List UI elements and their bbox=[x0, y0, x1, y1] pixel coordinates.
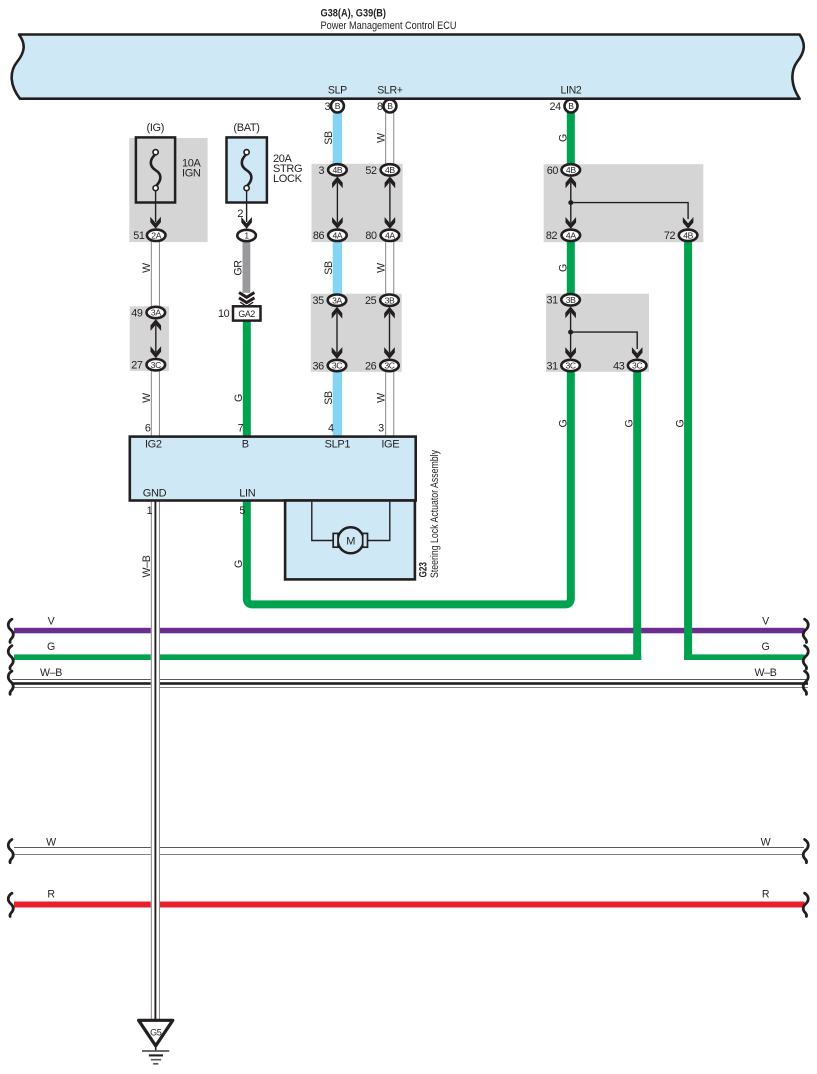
svg-text:24: 24 bbox=[549, 101, 561, 113]
svg-text:LIN2: LIN2 bbox=[561, 85, 582, 97]
svg-text:86: 86 bbox=[313, 230, 325, 242]
svg-text:W: W bbox=[376, 263, 388, 273]
svg-text:52: 52 bbox=[365, 165, 377, 177]
svg-text:26: 26 bbox=[365, 360, 377, 372]
svg-text:27: 27 bbox=[131, 360, 143, 372]
svg-text:G: G bbox=[233, 560, 245, 568]
svg-text:SB: SB bbox=[323, 261, 335, 275]
svg-text:3C: 3C bbox=[332, 361, 342, 371]
svg-text:GR: GR bbox=[233, 260, 245, 276]
svg-text:R: R bbox=[47, 889, 55, 901]
svg-text:Power Management Control ECU: Power Management Control ECU bbox=[321, 20, 457, 32]
svg-text:1: 1 bbox=[147, 505, 153, 517]
svg-text:LOCK: LOCK bbox=[273, 173, 303, 185]
svg-text:W: W bbox=[376, 133, 388, 143]
svg-text:51: 51 bbox=[133, 230, 145, 242]
svg-text:31: 31 bbox=[546, 295, 558, 307]
svg-text:4B: 4B bbox=[385, 165, 395, 175]
svg-text:B: B bbox=[387, 101, 393, 111]
svg-text:B: B bbox=[335, 101, 341, 111]
svg-text:G: G bbox=[762, 641, 770, 653]
svg-text:SLR+: SLR+ bbox=[377, 85, 403, 97]
svg-text:LIN: LIN bbox=[239, 487, 255, 499]
svg-text:5: 5 bbox=[239, 505, 245, 517]
svg-text:W: W bbox=[141, 393, 153, 403]
svg-text:1: 1 bbox=[244, 231, 249, 241]
svg-text:4: 4 bbox=[328, 423, 334, 435]
svg-text:3: 3 bbox=[319, 165, 325, 177]
svg-text:3B: 3B bbox=[385, 295, 395, 305]
svg-text:2A: 2A bbox=[151, 230, 161, 240]
svg-text:3C: 3C bbox=[384, 361, 394, 371]
svg-text:35: 35 bbox=[312, 295, 324, 307]
svg-text:W: W bbox=[46, 837, 56, 849]
svg-text:3A: 3A bbox=[151, 308, 161, 318]
svg-text:W: W bbox=[141, 263, 153, 273]
svg-text:GND: GND bbox=[143, 487, 167, 499]
svg-text:7: 7 bbox=[238, 423, 244, 435]
svg-text:60: 60 bbox=[547, 165, 559, 177]
svg-text:80: 80 bbox=[365, 230, 377, 242]
svg-text:IGN: IGN bbox=[182, 167, 201, 179]
svg-text:3C: 3C bbox=[565, 361, 575, 371]
svg-text:W–B: W–B bbox=[40, 667, 62, 679]
svg-text:6: 6 bbox=[145, 423, 151, 435]
svg-text:72: 72 bbox=[664, 230, 676, 242]
svg-text:Steering Lock Actuator Assembl: Steering Lock Actuator Assembly bbox=[429, 449, 441, 578]
svg-text:31: 31 bbox=[546, 360, 558, 372]
svg-text:4B: 4B bbox=[332, 165, 342, 175]
svg-text:3C: 3C bbox=[632, 361, 642, 371]
svg-text:G: G bbox=[623, 419, 635, 427]
svg-text:8: 8 bbox=[377, 101, 383, 113]
svg-text:G: G bbox=[47, 641, 55, 653]
svg-text:G: G bbox=[675, 419, 687, 427]
svg-text:4A: 4A bbox=[385, 230, 395, 240]
svg-text:R: R bbox=[762, 889, 770, 901]
svg-text:2: 2 bbox=[237, 208, 243, 220]
svg-text:4B: 4B bbox=[566, 165, 576, 175]
svg-text:3A: 3A bbox=[332, 295, 342, 305]
svg-text:W–B: W–B bbox=[141, 555, 153, 577]
svg-text:G: G bbox=[557, 419, 569, 427]
svg-text:49: 49 bbox=[131, 307, 143, 319]
svg-text:W: W bbox=[761, 837, 771, 849]
svg-text:3C: 3C bbox=[151, 360, 161, 370]
svg-text:G38(A), G39(B): G38(A), G39(B) bbox=[321, 8, 387, 20]
svg-text:G: G bbox=[233, 394, 245, 402]
svg-text:IGE: IGE bbox=[381, 438, 399, 450]
svg-text:G23: G23 bbox=[418, 562, 430, 578]
svg-text:M: M bbox=[346, 535, 355, 547]
svg-text:36: 36 bbox=[312, 360, 324, 372]
svg-text:4A: 4A bbox=[566, 230, 576, 240]
svg-text:25: 25 bbox=[365, 295, 377, 307]
svg-text:GA2: GA2 bbox=[238, 309, 255, 319]
svg-text:B: B bbox=[568, 101, 574, 111]
svg-text:SLP1: SLP1 bbox=[325, 438, 351, 450]
svg-text:SLP: SLP bbox=[328, 85, 347, 97]
svg-text:3: 3 bbox=[325, 101, 331, 113]
svg-text:W: W bbox=[376, 393, 388, 403]
svg-text:10: 10 bbox=[218, 308, 230, 320]
svg-text:43: 43 bbox=[613, 360, 625, 372]
svg-text:3B: 3B bbox=[566, 295, 576, 305]
svg-text:SB: SB bbox=[323, 391, 335, 405]
svg-text:W–B: W–B bbox=[755, 667, 777, 679]
svg-text:G5: G5 bbox=[150, 1028, 162, 1038]
svg-text:IG2: IG2 bbox=[145, 438, 162, 450]
svg-text:(IG): (IG) bbox=[147, 122, 165, 134]
svg-text:82: 82 bbox=[546, 230, 558, 242]
svg-text:4B: 4B bbox=[683, 230, 693, 240]
svg-text:B: B bbox=[242, 438, 249, 450]
svg-text:3: 3 bbox=[378, 423, 384, 435]
svg-text:(BAT): (BAT) bbox=[233, 122, 259, 134]
svg-text:G: G bbox=[557, 264, 569, 272]
svg-text:SB: SB bbox=[323, 131, 335, 145]
svg-text:G: G bbox=[557, 134, 569, 142]
svg-text:4A: 4A bbox=[332, 230, 342, 240]
